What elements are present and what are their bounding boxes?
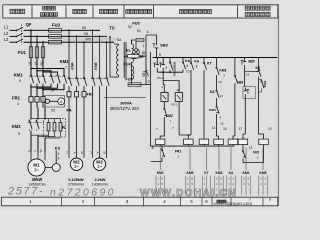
contactor KM2 main contact xyxy=(57,74,59,75)
wire drop to FU1 phase 3 xyxy=(42,42,44,47)
wire FU1 to KM1 xyxy=(36,58,38,74)
thermal contact FR1 below bus xyxy=(161,146,163,148)
contact KM4 rapid interlock xyxy=(259,79,262,81)
svg-text:3~: 3~ xyxy=(97,164,102,169)
svg-text:KA: KA xyxy=(210,90,215,94)
contactor KM4 main contact xyxy=(83,76,85,77)
svg-text:KM5: KM5 xyxy=(94,62,98,69)
fuse FU1 element xyxy=(35,47,38,58)
pushbutton SB2 start branch xyxy=(162,58,164,62)
svg-text:KM1(SB2): KM1(SB2) xyxy=(172,62,176,76)
wire tap to KM5 phase 3 xyxy=(106,42,108,76)
lamp branch: switch SA xyxy=(132,40,137,44)
svg-text:FU3: FU3 xyxy=(132,21,140,26)
svg-text:1: 1 xyxy=(143,44,145,48)
svg-text:13: 13 xyxy=(220,94,224,98)
transformer TC primary winding xyxy=(117,45,119,75)
coil KM3 xyxy=(214,139,224,145)
header label cell 6 (spindle and feed control) xyxy=(179,10,183,14)
svg-text:V: V xyxy=(33,150,37,152)
fuse FU1 element xyxy=(29,47,32,58)
transformer TC core xyxy=(123,42,125,78)
wire KM5 to motor M3 xyxy=(106,87,108,158)
svg-text:R: R xyxy=(62,125,65,130)
wire phase 2 after QF xyxy=(24,35,108,37)
svg-text:QF: QF xyxy=(26,22,32,27)
contact KM3 branch with KA and KM4 contacts xyxy=(216,58,218,67)
wire FU1 to KM1 xyxy=(30,58,32,74)
ammeter PA (A) xyxy=(58,98,65,105)
svg-text:11: 11 xyxy=(176,88,179,92)
svg-text:KA: KA xyxy=(185,59,190,63)
contactor KM4 main contact xyxy=(68,76,70,77)
svg-text:5: 5 xyxy=(159,53,161,57)
header label cell 5 (transformer and lighting) xyxy=(126,10,130,14)
svg-text:U: U xyxy=(65,151,69,153)
svg-text:5: 5 xyxy=(58,157,60,161)
wire tap to KM4 phase 2 xyxy=(76,36,78,76)
wire KM5 to motor M3 xyxy=(92,87,94,158)
contactor KM5 main contact xyxy=(92,76,94,77)
svg-text:54: 54 xyxy=(51,89,55,93)
svg-text:EL: EL xyxy=(126,49,131,53)
svg-text:8: 8 xyxy=(196,65,198,69)
svg-text:KM4: KM4 xyxy=(243,171,250,175)
wire L2 incoming xyxy=(10,35,17,37)
wire KM1 output down xyxy=(42,85,44,97)
svg-text:300VA: 300VA xyxy=(120,101,132,106)
wire KM5 to motor M3 xyxy=(99,87,101,158)
svg-text:L1: L1 xyxy=(4,25,9,30)
footer column strip xyxy=(2,197,278,206)
fuse FU2 element 2 xyxy=(49,35,62,38)
svg-text:KM4: KM4 xyxy=(263,80,267,87)
svg-text:W: W xyxy=(39,149,43,152)
transformer block bottom line xyxy=(104,97,146,99)
svg-text:SQ: SQ xyxy=(255,66,260,70)
svg-text:KT: KT xyxy=(204,171,208,175)
svg-text:FR2: FR2 xyxy=(253,151,259,155)
coil KT xyxy=(228,139,238,145)
svg-text:17: 17 xyxy=(239,127,243,131)
wires resistor top taps xyxy=(31,118,61,120)
jumpers merging KM2 outputs back xyxy=(31,85,51,88)
wires down to motor M1 xyxy=(30,131,32,153)
fuse FU3 element xyxy=(136,38,144,41)
contact KA second xyxy=(190,58,192,62)
svg-text:5: 5 xyxy=(18,132,20,136)
speed switch box KS-1 xyxy=(175,93,182,102)
motor M1 xyxy=(28,159,45,176)
junction wire node 10 xyxy=(157,71,183,73)
interlock contact KM2 xyxy=(163,101,165,107)
resistor R element xyxy=(59,123,62,132)
coil KM4 xyxy=(238,139,248,145)
svg-text:7: 7 xyxy=(65,66,67,70)
svg-text:8: 8 xyxy=(269,197,271,201)
wire tap to KM4 phase 3 xyxy=(83,42,85,76)
contactor KM1 main contact xyxy=(30,74,32,75)
fuse FU2 element 3 xyxy=(49,41,62,44)
svg-text:4: 4 xyxy=(17,102,19,106)
wire L3 incoming xyxy=(10,41,17,43)
wire KM1 output down xyxy=(30,85,32,97)
header label cell 2 (spindle and lube drive, two lines) xyxy=(43,6,47,10)
crossover jumper wires to KM2 xyxy=(31,69,64,74)
svg-text:TC: TC xyxy=(109,26,115,31)
wire tap to KM5 phase 2 xyxy=(99,36,101,76)
svg-text:W: W xyxy=(103,151,107,154)
svg-text:SB5: SB5 xyxy=(248,60,255,64)
svg-text:V: V xyxy=(96,151,100,153)
svg-text:19: 19 xyxy=(268,127,272,131)
svg-text:KM5: KM5 xyxy=(260,171,267,175)
svg-text:51: 51 xyxy=(137,29,141,33)
wire phase 3 after QF xyxy=(24,41,115,43)
contactor KM4 main contact xyxy=(76,76,78,77)
branch KS-1 down to coil KM2 xyxy=(178,101,180,135)
svg-text:52: 52 xyxy=(128,25,132,29)
resistor bank R dashed box xyxy=(44,119,66,138)
pushbutton SB5 coolant start xyxy=(244,58,246,60)
fuse FU2 element 1 xyxy=(49,29,62,32)
svg-text:KM4: KM4 xyxy=(209,108,216,112)
wires into KM3/R section xyxy=(30,108,32,120)
svg-text:0.125kW: 0.125kW xyxy=(68,178,84,182)
svg-text:4: 4 xyxy=(58,152,60,156)
speed relay KS xyxy=(45,167,52,169)
svg-text:2.2kW: 2.2kW xyxy=(95,178,106,182)
thermal relay FR1 heater xyxy=(35,97,39,103)
contact KT time-delay branch xyxy=(203,58,205,62)
branch KT coil xyxy=(234,58,236,75)
svg-text:10: 10 xyxy=(186,70,190,74)
svg-text:V5: V5 xyxy=(84,32,88,36)
wire drop to FU1 phase 1 xyxy=(30,30,32,47)
wire 0/1 from secondary to control xyxy=(131,40,133,44)
svg-text:SB1: SB1 xyxy=(142,71,146,77)
wire drop to FU1 phase 2 xyxy=(36,36,38,47)
right return wire xyxy=(243,162,264,164)
svg-text:SB3: SB3 xyxy=(160,44,167,48)
svg-text:U: U xyxy=(89,151,93,153)
header row of function-zone boxes xyxy=(3,5,278,18)
svg-text:KM4: KM4 xyxy=(71,62,75,69)
motor M3 xyxy=(93,158,105,170)
position index group KM5 xyxy=(262,148,264,171)
wire tap to KM4 phase 1 xyxy=(68,30,70,76)
coil KM2 xyxy=(184,139,194,145)
horizontal link wire 111 xyxy=(204,110,217,112)
svg-text:2577-: 2577- xyxy=(7,186,44,198)
wire into TC primary xyxy=(114,43,119,45)
thermal relay FR1 heater xyxy=(29,97,33,103)
svg-text:U5: U5 xyxy=(82,26,86,30)
svg-text:12: 12 xyxy=(218,80,222,84)
svg-text:A: A xyxy=(60,100,63,104)
thermal relay FR2 heaters xyxy=(67,92,71,97)
svg-text:SA: SA xyxy=(117,38,122,42)
position index group KM2 xyxy=(218,148,220,171)
contact KA first xyxy=(182,58,184,61)
svg-text:KM3: KM3 xyxy=(12,124,22,129)
contact KM4 interlock xyxy=(216,105,218,106)
svg-text:4: 4 xyxy=(146,30,148,34)
svg-text:8: 8 xyxy=(152,146,154,150)
fuse FU5 element xyxy=(128,83,141,86)
svg-text:3: 3 xyxy=(148,80,150,84)
svg-text:FR1: FR1 xyxy=(175,149,182,153)
wire phase 1 after QF xyxy=(24,29,101,31)
wire FU1 to KM1 xyxy=(42,58,44,74)
svg-text:KM2: KM2 xyxy=(166,114,173,118)
contactor KM2 main contact xyxy=(63,74,65,75)
header label cell 7 (coolant pump and rapid move control, two lines) xyxy=(245,6,249,10)
svg-text:KA: KA xyxy=(194,59,199,63)
svg-text:n2720690: n2720690 xyxy=(50,187,116,199)
contact KM1 self-hold xyxy=(169,58,171,61)
svg-text:U: U xyxy=(27,150,31,152)
svg-text:380V/127V, 36V: 380V/127V, 36V xyxy=(110,106,140,111)
position index group KM4 xyxy=(245,148,247,171)
svg-text:KM1: KM1 xyxy=(14,73,24,78)
limit switch SQ xyxy=(258,58,260,71)
resistor R element xyxy=(47,123,50,132)
svg-text:9: 9 xyxy=(165,66,167,70)
wires resistor bottom merge xyxy=(31,134,49,136)
position index group KT xyxy=(206,148,208,171)
contactor KM5 main contact xyxy=(99,76,101,77)
contactor KM2 main contact xyxy=(50,74,52,75)
svg-text:SB6: SB6 xyxy=(237,81,244,85)
position index group KM5 xyxy=(189,148,191,171)
thermal relay FR1 heater xyxy=(41,97,45,103)
contactor KM1 main contact xyxy=(36,74,38,75)
thermal contact FR2 below coil KM4 xyxy=(242,145,244,150)
header label cell 3 (coolant pump) xyxy=(73,9,77,13)
outer frame right border xyxy=(277,4,279,206)
fuse FU1 element xyxy=(41,47,44,58)
svg-text:8: 8 xyxy=(187,64,189,68)
svg-text:15: 15 xyxy=(223,127,227,131)
header label cell 1 (main switch) xyxy=(10,9,14,13)
transformer TC secondary winding (127V control) xyxy=(132,44,134,62)
svg-text:55: 55 xyxy=(51,109,55,113)
svg-text:16: 16 xyxy=(246,72,250,76)
wire KM1 output down xyxy=(36,85,38,97)
wire: secondary to FU5 and bus xyxy=(131,64,133,85)
scan artifact gray streak xyxy=(52,38,117,42)
svg-text:FU4: FU4 xyxy=(123,63,131,67)
svg-text:L2: L2 xyxy=(4,31,9,36)
svg-text:3~: 3~ xyxy=(34,168,39,173)
position index group KA xyxy=(230,148,232,171)
transformer TC secondary winding 2 (36V lamp) xyxy=(132,66,134,79)
speed switch box KS-2 xyxy=(161,93,168,102)
footer cell 7 pseudo text xyxy=(217,200,220,203)
svg-text:3~: 3~ xyxy=(74,164,79,169)
svg-text:KM5: KM5 xyxy=(187,171,194,175)
svg-text:9: 9 xyxy=(19,79,21,83)
resistor R element xyxy=(53,123,56,132)
svg-text:18: 18 xyxy=(249,145,253,149)
control top bus wire 5 xyxy=(153,57,278,59)
svg-text:KM1: KM1 xyxy=(157,171,164,175)
wire tap to KM5 phase 1 xyxy=(92,30,94,76)
junction dots main branch xyxy=(30,30,32,32)
wire from node 4 to stop button SB3 xyxy=(146,35,157,41)
header label cell 4 (rapid move) xyxy=(99,9,103,13)
svg-text:W: W xyxy=(80,151,84,154)
svg-text:10: 10 xyxy=(139,55,143,59)
contactor KM5 main contact xyxy=(106,76,108,77)
svg-text:KM2: KM2 xyxy=(216,171,223,175)
wire L1 incoming xyxy=(10,29,17,31)
svg-text:FU2: FU2 xyxy=(52,23,61,28)
svg-text:0: 0 xyxy=(143,50,145,54)
stop pushbutton SB3 xyxy=(156,41,158,46)
contactor KM3 contact 1 xyxy=(29,120,31,121)
contactor KM3 contact 2 xyxy=(36,120,38,121)
svg-text:KS: KS xyxy=(55,146,61,151)
svg-text:16: 16 xyxy=(220,122,224,126)
svg-text:FR1: FR1 xyxy=(12,96,21,101)
svg-text:W5: W5 xyxy=(85,38,90,42)
motor M2 xyxy=(70,158,82,170)
position index group KM1 xyxy=(159,148,161,171)
svg-text:www.diangon.com: www.diangon.com xyxy=(214,201,253,207)
control bottom bus wire 0 xyxy=(151,145,235,147)
fuse FU4 label + element xyxy=(124,55,146,57)
svg-text:V: V xyxy=(73,151,77,153)
svg-text:14: 14 xyxy=(212,126,216,130)
svg-text:FU1: FU1 xyxy=(18,50,27,55)
coil KM1 xyxy=(160,118,164,139)
coil KA xyxy=(199,139,209,145)
pushbutton SB1 jog branch xyxy=(156,58,158,62)
svg-text:KM3: KM3 xyxy=(219,69,226,73)
contactor KM1 main contact xyxy=(42,74,44,75)
svg-text:L3: L3 xyxy=(4,37,9,42)
svg-text:WWW.DOHAI.CN: WWW.DOHAI.CN xyxy=(140,188,237,199)
svg-text:7: 7 xyxy=(249,197,251,201)
svg-text:KM2: KM2 xyxy=(60,59,70,64)
svg-text:KS-1: KS-1 xyxy=(171,103,178,107)
svg-text:KA: KA xyxy=(229,171,234,175)
circuit breaker QF xyxy=(17,27,24,30)
node 16 wire xyxy=(245,71,259,73)
coil KM5 xyxy=(259,139,269,145)
